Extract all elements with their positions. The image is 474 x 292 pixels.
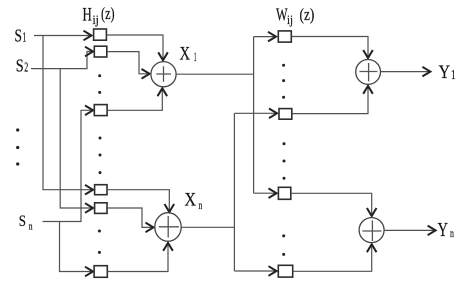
filter block Hn2 [95, 203, 107, 214]
summer X1 [151, 62, 176, 87]
svg-text:ij: ij [287, 13, 293, 27]
svg-text:S: S [16, 56, 24, 76]
wire Wnn out to Yn summer bottom [293, 244, 372, 271]
wire W1n out to Y1 summer bottom [292, 86, 368, 114]
ellipsis dots left inputs [16, 128, 19, 165]
ellipsis dots W column middle [283, 142, 286, 179]
filter block H1n [94, 105, 107, 116]
wire Hn2 out to Xn summer left [107, 208, 154, 227]
wire bus1 to Wn1 [254, 192, 277, 194]
svg-text:H: H [83, 5, 92, 26]
wire bus2 to W1n [234, 112, 277, 114]
node bus1 vertical [253, 37, 255, 194]
svg-text:X: X [180, 44, 191, 65]
wire Sn to H1n [43, 110, 94, 221]
label X1 [180, 44, 197, 65]
label Sn [19, 213, 33, 233]
filter block Wnn [278, 265, 292, 277]
summer Xn [155, 213, 181, 242]
ellipsis dots W column lower [282, 234, 285, 256]
wire H1n out to X1 summer bottom [107, 88, 162, 110]
filter block Hn1 [95, 185, 107, 195]
wire H12 out to X1 summer left [107, 52, 150, 74]
filter block Wn1 [278, 187, 290, 199]
filter block W1n [279, 109, 292, 120]
wire H11 out to X1 summer top [107, 35, 164, 60]
label Yn [438, 220, 454, 241]
wire Sn branch to Hnn [60, 222, 94, 272]
svg-text:n: n [450, 226, 454, 240]
svg-text:ij: ij [93, 13, 99, 27]
svg-text:n: n [199, 198, 203, 212]
wire S2 to H12 [31, 52, 93, 69]
summer Yn [359, 218, 384, 243]
filter block W11 [278, 31, 291, 42]
wire S2 branch to Hn2 [60, 69, 93, 208]
svg-text:X: X [185, 190, 197, 211]
label W_ij (z) [276, 4, 314, 27]
wire Wn1 out to Yn summer top [291, 193, 372, 216]
svg-text:2: 2 [24, 60, 28, 75]
wire bus1 to W11 [254, 36, 276, 38]
wire Xn out to bus2 [181, 226, 234, 228]
wire Yn output arrow [384, 229, 436, 231]
filter block H11 [94, 29, 107, 40]
wire S1 branch to Hn1 [43, 36, 93, 190]
ellipsis dots H column upper [98, 74, 101, 94]
svg-text:1: 1 [451, 68, 456, 83]
svg-text:Y: Y [438, 220, 448, 241]
label Xn [185, 190, 203, 212]
svg-text:S: S [15, 26, 22, 46]
svg-text:(z): (z) [101, 4, 115, 23]
svg-text:n: n [29, 221, 33, 233]
ellipsis dots H column middle [99, 137, 102, 175]
label S1 [15, 26, 27, 46]
summer Y1 [356, 60, 381, 85]
label Y1 [439, 62, 456, 83]
svg-text:(z): (z) [300, 5, 315, 24]
ellipsis dots W column upper [282, 64, 285, 99]
wire Hnn out to Xn summer bottom [107, 243, 168, 272]
label S2 [16, 56, 28, 76]
label H_ij(z) [83, 4, 115, 27]
wire Y1 output arrow [381, 71, 431, 73]
filter block Hnn [94, 266, 107, 278]
wire X1 out to bus1 [176, 73, 254, 75]
svg-text:Y: Y [439, 62, 451, 83]
wire bus2 to Wnn [234, 270, 276, 272]
ellipsis dots H column lower [98, 230, 101, 254]
wire Hn1 out to Xn summer top [107, 190, 169, 212]
wire W11 out to Y1 summer top [292, 37, 369, 59]
wire S1 to H11 [34, 35, 92, 37]
node bus2 vertical [233, 113, 235, 271]
svg-text:1: 1 [194, 50, 197, 64]
svg-text:1: 1 [22, 31, 26, 46]
filter block H12 [94, 46, 107, 57]
svg-text:S: S [19, 213, 26, 230]
